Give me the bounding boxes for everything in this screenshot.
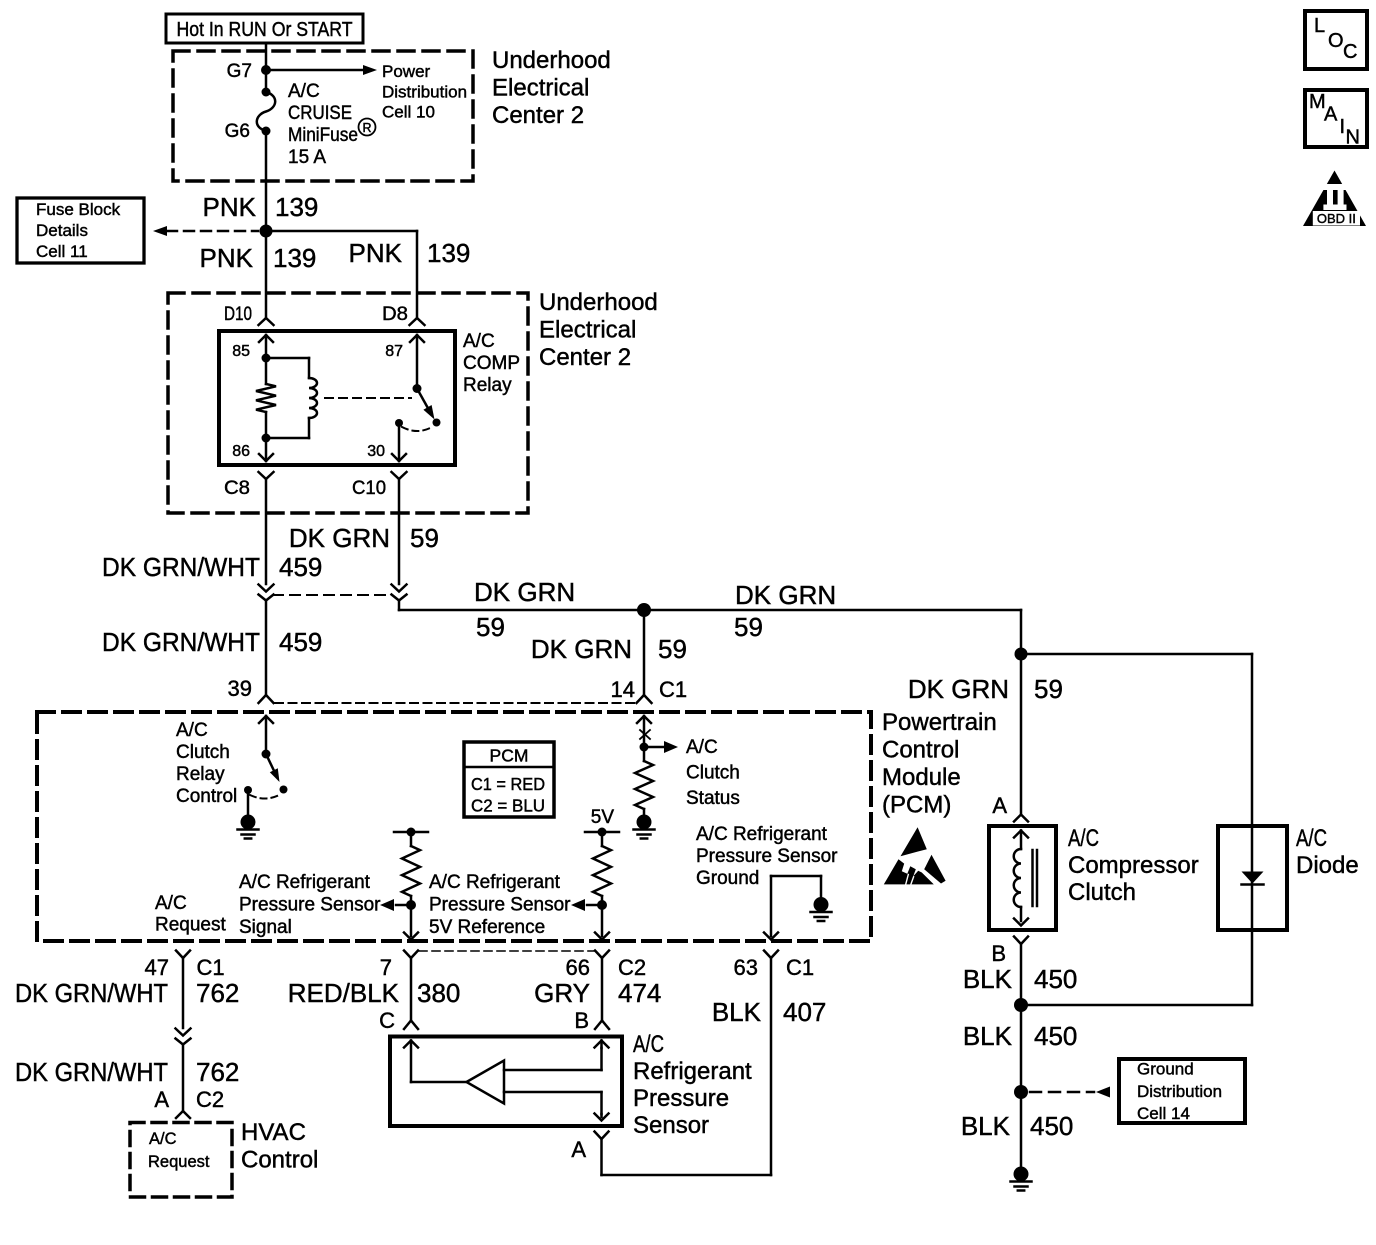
- dashed box Powertrain Control Module (PCM): [37, 712, 871, 941]
- svg-text:459: 459: [279, 627, 322, 657]
- relay pin 85 arrow: [259, 335, 273, 358]
- svg-text:Pressure: Pressure: [633, 1085, 729, 1112]
- label DK GRN 59 (vertical to pin 14): [531, 634, 687, 664]
- relay switch arm (moving contact): [417, 389, 441, 427]
- svg-text:I: I: [1340, 116, 1346, 138]
- svg-text:Clutch: Clutch: [176, 742, 230, 763]
- power feed label box: Hot In RUN Or START: [166, 14, 363, 43]
- svg-text:MiniFuse: MiniFuse: [288, 125, 358, 146]
- svg-text:Clutch: Clutch: [686, 763, 740, 784]
- label A/C Request (HVAC): [148, 1130, 210, 1171]
- svg-text:450: 450: [1034, 964, 1077, 994]
- connector chevron pin 14: [637, 695, 652, 703]
- svg-text:N: N: [1346, 127, 1360, 149]
- wire arrow to Power Distribution Cell 10: [266, 65, 377, 75]
- wire RED/BLK 380: [410, 958, 413, 1021]
- pin B label (sensor): [574, 1008, 589, 1033]
- svg-text:59: 59: [658, 634, 687, 664]
- resistor (clutch status pull-up): [635, 747, 653, 821]
- clutch internal top arrow: [1014, 831, 1028, 850]
- svg-text:Relay: Relay: [463, 375, 512, 396]
- svg-text:Pressure Sensor: Pressure Sensor: [696, 846, 838, 867]
- title: Powertrain Control Module (PCM): [882, 709, 997, 819]
- svg-text:139: 139: [275, 192, 318, 222]
- svg-text:139: 139: [427, 238, 470, 268]
- svg-text:O: O: [1328, 30, 1344, 52]
- svg-text:BLK: BLK: [961, 1111, 1011, 1141]
- splice node BLK 450 (ground dist tap): [1014, 1085, 1028, 1099]
- svg-text:Distribution: Distribution: [1137, 1082, 1222, 1101]
- pin C2 label (HVAC): [196, 1087, 224, 1112]
- svg-text:14: 14: [611, 677, 635, 702]
- node clutch status tap: [640, 743, 649, 752]
- svg-text:B: B: [991, 941, 1006, 966]
- wire DK GRN 59 corner to splice: [399, 601, 644, 611]
- wire PNK 139 to relay pin D10: [265, 231, 268, 318]
- svg-text:RED/BLK: RED/BLK: [288, 978, 400, 1008]
- label PNK 139 (right branch): [349, 238, 471, 268]
- sensor internal input B arrow: [595, 1041, 609, 1049]
- svg-text:Pressure Sensor: Pressure Sensor: [429, 895, 571, 916]
- label A/C Request: [155, 893, 226, 936]
- label BLK 450 (middle): [963, 1021, 1078, 1051]
- sensor box A/C Refrigerant Pressure Sensor: [390, 1037, 622, 1127]
- wire diode return: [1021, 930, 1252, 1005]
- wire DK GRN to diode: [1021, 654, 1252, 826]
- pin G7 label: [227, 61, 252, 82]
- connector chevron sensor pin A: [595, 1132, 609, 1140]
- ground G103 (main ground): [1011, 1167, 1032, 1191]
- relay switch fixed contact 30: [395, 419, 403, 427]
- label A/C Refrigerant Pressure Sensor Ground: [696, 824, 838, 889]
- pin C label (sensor): [379, 1008, 395, 1033]
- svg-text:A/C: A/C: [155, 893, 187, 914]
- relay coil winding: [309, 358, 317, 438]
- pin C1 label (pin 63): [786, 955, 814, 980]
- svg-text:762: 762: [196, 1057, 239, 1087]
- resistor (pressure signal): [402, 832, 420, 905]
- svg-text:PNK: PNK: [203, 192, 257, 222]
- svg-text:B: B: [574, 1008, 589, 1033]
- label 5V: [591, 807, 615, 828]
- label DK GRN/WHT 459 (upper): [102, 552, 322, 582]
- pin 47 label: [145, 955, 169, 980]
- wire PNK 139 branch to relay pin D8: [266, 231, 417, 318]
- svg-text:Status: Status: [686, 788, 740, 809]
- svg-text:DK GRN/WHT: DK GRN/WHT: [15, 978, 168, 1008]
- diode D1 element: [1242, 826, 1264, 930]
- pin 63 label: [734, 955, 758, 980]
- wire DK GRN 59 from C10: [398, 479, 401, 584]
- svg-text:762: 762: [196, 978, 239, 1008]
- splice node PNK 139: [260, 225, 273, 238]
- LOC reference box: [1305, 11, 1367, 69]
- svg-text:C1: C1: [659, 677, 687, 702]
- title: A/C Diode: [1296, 825, 1359, 879]
- wire DK GRN 59 clutch branch: [1020, 654, 1023, 815]
- svg-text:407: 407: [783, 997, 826, 1027]
- fuse value label A/C CRUISE MiniFuse(R) 15 A: [288, 81, 376, 168]
- svg-text:Powertrain: Powertrain: [882, 709, 997, 736]
- svg-text:Hot In RUN Or START: Hot In RUN Or START: [177, 19, 353, 41]
- svg-text:Request: Request: [148, 1153, 210, 1171]
- svg-text:DK GRN/WHT: DK GRN/WHT: [15, 1057, 168, 1087]
- svg-text:(PCM): (PCM): [882, 792, 951, 819]
- relay pin 30 arrow and wire: [392, 423, 406, 461]
- label PNK 139 (left branch below splice): [200, 243, 317, 273]
- wire DK GRN/WHT 459 from C8: [265, 479, 268, 584]
- title: A/C Compressor Clutch: [1068, 825, 1199, 906]
- fuse F1 A/C CRUISE MiniFuse 15A (S-curve element): [257, 88, 275, 136]
- dashed connector C2 line (pins 7-66): [419, 950, 594, 952]
- connector chevron C8: [259, 472, 274, 479]
- wire GRY 474: [601, 958, 604, 1021]
- label A/C Clutch Status: [686, 737, 740, 809]
- svg-text:Clutch: Clutch: [1068, 879, 1136, 906]
- crossed-wire x mark: [640, 730, 650, 739]
- driver switch common node: [262, 750, 271, 759]
- wire sensor pin A to BLK 407: [600, 1139, 603, 1175]
- svg-text:DK GRN: DK GRN: [735, 580, 836, 610]
- svg-text:59: 59: [476, 612, 505, 642]
- title: HVAC Control: [241, 1119, 318, 1174]
- clutch core lines: [1033, 850, 1038, 906]
- wire coil bottom link: [266, 437, 309, 440]
- svg-text:OBD II: OBD II: [1317, 211, 1356, 226]
- svg-text:A/C Refrigerant: A/C Refrigerant: [429, 872, 561, 893]
- label A/C Refrigerant Pressure Sensor Signal: [239, 872, 381, 938]
- svg-text:459: 459: [279, 552, 322, 582]
- dashed arrow to Ground Distribution: [1030, 1087, 1110, 1098]
- clutch relay control driver arrow: [259, 716, 273, 754]
- svg-text:86: 86: [232, 443, 250, 460]
- wire DK GRN/WHT 762 lower: [182, 1045, 185, 1112]
- inline connector on DK GRN/WHT wire: [259, 585, 274, 601]
- svg-text:Details: Details: [36, 221, 88, 240]
- svg-text:DK GRN: DK GRN: [908, 674, 1009, 704]
- dashed connector pairing line: [273, 594, 391, 596]
- svg-text:Diode: Diode: [1296, 852, 1359, 879]
- svg-text:139: 139: [273, 243, 316, 273]
- dashed box HVAC Control: [130, 1123, 232, 1198]
- label DK GRN 59 (below C10): [289, 523, 439, 553]
- connector chevron clutch pin B: [1014, 937, 1028, 945]
- sensor internal output A arrow: [595, 1114, 609, 1121]
- svg-text:5V: 5V: [591, 807, 615, 828]
- label DK GRN 59 (horizontal right segment): [734, 580, 836, 642]
- svg-text:87: 87: [385, 343, 403, 360]
- svg-text:G7: G7: [227, 61, 252, 82]
- connector chevron HVAC pin A: [176, 1111, 190, 1118]
- wire from Hot In RUN to fuse pin G7: [265, 43, 268, 92]
- clutch coil winding: [1014, 849, 1021, 921]
- svg-text:Center 2: Center 2: [492, 102, 584, 129]
- driver switch arm: [266, 754, 288, 794]
- svg-text:A: A: [1324, 104, 1338, 126]
- svg-text:A/C: A/C: [288, 81, 320, 102]
- pin 39 label: [228, 676, 252, 701]
- dashed connector C1 line (PCM top): [275, 702, 635, 704]
- svg-text:Relay: Relay: [176, 764, 225, 785]
- svg-text:C: C: [379, 1008, 395, 1033]
- ESD sensitivity symbol: [884, 827, 946, 884]
- wire DK GRN/WHT 762 upper: [182, 958, 185, 1028]
- svg-text:C1: C1: [197, 955, 225, 980]
- wire DK GRN 59 down to PCM pin 14: [643, 610, 646, 695]
- wire DK GRN/WHT 459 to PCM pin 39: [265, 601, 268, 696]
- sensor internal wire B input: [504, 1048, 602, 1070]
- wire pressure signal to pin 7: [404, 905, 418, 940]
- label A/C Refrigerant Pressure Sensor 5V Reference: [429, 872, 571, 938]
- svg-text:Module: Module: [882, 764, 961, 791]
- connector chevron pin 66: [595, 951, 609, 959]
- svg-text:450: 450: [1030, 1111, 1073, 1141]
- svg-text:85: 85: [232, 343, 250, 360]
- svg-text:A/C: A/C: [149, 1130, 177, 1148]
- pin 66 label: [566, 955, 590, 980]
- svg-text:BLK: BLK: [963, 964, 1013, 994]
- reference box Ground Distribution Cell 14: [1119, 1059, 1245, 1123]
- connector chevron D10: [259, 318, 274, 325]
- inline connector on DK GRN wire: [392, 585, 407, 601]
- svg-text:30: 30: [367, 443, 385, 460]
- connector chevron D8: [410, 318, 425, 325]
- label PNK 139 (above splice): [203, 192, 319, 222]
- svg-text:15 A: 15 A: [288, 147, 326, 168]
- svg-text:Sensor: Sensor: [633, 1112, 709, 1139]
- pin C1 label (PCM top): [659, 677, 687, 702]
- relay coil resistor element: [256, 358, 276, 438]
- pin 85 label: [232, 343, 250, 360]
- node relay coil bottom: [262, 434, 271, 443]
- driver switch dashed travel arc: [250, 794, 281, 799]
- splice node BLK 450 (diode junction): [1014, 998, 1028, 1012]
- PCM legend box PCM C1=RED C2=BLU: [464, 742, 554, 817]
- svg-text:PNK: PNK: [200, 243, 254, 273]
- svg-text:A: A: [154, 1087, 169, 1112]
- svg-text:Fuse Block: Fuse Block: [36, 200, 121, 219]
- svg-text:Underhood: Underhood: [539, 289, 658, 316]
- svg-text:59: 59: [734, 612, 763, 642]
- wire PNK 139 from fuse G6 to splice: [265, 131, 268, 231]
- svg-text:C1: C1: [786, 955, 814, 980]
- pin D10 label: [224, 304, 252, 325]
- wire BLK 450 (clutch B to splice): [1020, 944, 1023, 1005]
- title: Underhood Electrical Center 2 (relay): [539, 289, 658, 371]
- label DK GRN 59 (horizontal left segment): [474, 577, 575, 642]
- pressure signal input rail bar: [394, 828, 428, 837]
- label DK GRN 59 (clutch branch): [908, 674, 1063, 704]
- svg-text:5V Reference: 5V Reference: [429, 917, 545, 938]
- dashed arrow to Fuse Block Details: [153, 226, 258, 236]
- svg-text:DK GRN/WHT: DK GRN/WHT: [102, 627, 260, 657]
- svg-text:Control: Control: [176, 786, 237, 807]
- svg-text:BLK: BLK: [963, 1021, 1013, 1051]
- wire DK GRN 59 right segment: [644, 610, 1021, 654]
- pin 87 label: [385, 343, 403, 360]
- svg-text:Electrical: Electrical: [492, 75, 589, 102]
- node relay coil top: [262, 354, 271, 363]
- svg-text:C8: C8: [224, 478, 250, 499]
- svg-text:DK GRN/WHT: DK GRN/WHT: [102, 552, 260, 582]
- svg-text:C2: C2: [196, 1087, 224, 1112]
- pin 14 label: [611, 677, 635, 702]
- svg-text:BLK: BLK: [712, 997, 762, 1027]
- svg-text:Distribution: Distribution: [382, 83, 467, 102]
- arrow to A/C Refrigerant Pressure Sensor 5V Reference: [571, 899, 602, 911]
- connector chevron pin 63: [764, 951, 778, 959]
- connector chevron clutch pin A: [1014, 815, 1028, 822]
- label DK GRN/WHT 762 (lower): [15, 1057, 239, 1087]
- arrow to A/C Refrigerant Pressure Sensor Signal: [380, 899, 411, 911]
- wire BLK 450 (lower): [1020, 1092, 1023, 1174]
- svg-text:L: L: [1314, 15, 1325, 37]
- svg-text:C2: C2: [618, 955, 646, 980]
- pin C8 label: [224, 478, 250, 499]
- svg-text:A: A: [992, 793, 1007, 818]
- label A/C COMP Relay: [463, 331, 520, 396]
- svg-text:A/C: A/C: [1296, 825, 1327, 852]
- driver switch fixed contact: [244, 786, 252, 794]
- 5V supply rail bar: [585, 828, 619, 837]
- svg-text:Cell 10: Cell 10: [382, 103, 435, 122]
- pin A label (clutch): [992, 793, 1007, 818]
- svg-text:A/C: A/C: [176, 720, 208, 741]
- svg-text:66: 66: [566, 955, 590, 980]
- pin C1 label (pin 47): [197, 955, 225, 980]
- svg-text:D8: D8: [382, 304, 408, 325]
- ground (clutch relay control driver): [238, 790, 259, 839]
- svg-text:Signal: Signal: [239, 917, 292, 938]
- splice node DK GRN (clutch/diode): [1015, 648, 1028, 661]
- svg-text:G6: G6: [225, 121, 250, 142]
- svg-text:59: 59: [410, 523, 439, 553]
- relay switch common node: [413, 384, 422, 393]
- label Power Distribution Cell 10: [382, 62, 467, 122]
- sensor internal wire to amplifier: [411, 1081, 466, 1084]
- svg-text:C10: C10: [352, 478, 386, 499]
- svg-text:Control: Control: [241, 1147, 318, 1174]
- svg-text:Control: Control: [882, 737, 959, 764]
- node pressure signal tap: [406, 900, 416, 910]
- label RED/BLK 380: [288, 978, 461, 1008]
- pin A label (HVAC): [154, 1087, 169, 1112]
- svg-text:39: 39: [228, 676, 252, 701]
- wire pressure sensor ground stub: [771, 876, 821, 897]
- svg-text:Cell 11: Cell 11: [36, 242, 88, 261]
- svg-text:Compressor: Compressor: [1068, 852, 1199, 879]
- svg-text:GRY: GRY: [534, 978, 590, 1008]
- svg-text:A/C: A/C: [686, 737, 718, 758]
- relay switch dashed travel arc: [402, 427, 432, 431]
- connector chevron pin 39: [259, 695, 274, 703]
- connector chevron sensor pin C: [404, 1021, 418, 1030]
- svg-text:Underhood: Underhood: [492, 47, 611, 74]
- svg-text:450: 450: [1034, 1021, 1077, 1051]
- svg-text:A/C Refrigerant: A/C Refrigerant: [696, 824, 828, 845]
- connector chevron pin 7: [404, 951, 418, 959]
- wire BLK 450 (middle): [1020, 1005, 1023, 1092]
- op-amp U1 (amplifier triangle): [467, 1061, 505, 1104]
- label BLK 450 (lower): [961, 1111, 1074, 1141]
- pin D8 label: [382, 304, 408, 325]
- pin 7 label: [380, 955, 392, 980]
- svg-text:Refrigerant: Refrigerant: [633, 1058, 752, 1085]
- arrow to A/C Clutch Status: [644, 741, 678, 753]
- sensor internal input C arrow: [404, 1041, 418, 1083]
- clutch internal bottom arrow: [1014, 919, 1028, 926]
- svg-text:Pressure Sensor: Pressure Sensor: [239, 895, 381, 916]
- wire pressure sensor ground to pin 63: [764, 876, 778, 940]
- svg-text:63: 63: [734, 955, 758, 980]
- diode box A/C Diode: [1218, 826, 1287, 930]
- svg-text:PCM: PCM: [490, 746, 529, 766]
- dashed box Underhood Electrical Center 2 (fuse block): [173, 51, 473, 181]
- ground (pressure sensor ground reference): [811, 897, 832, 921]
- svg-text:Electrical: Electrical: [539, 317, 636, 344]
- wire BLK 407: [602, 958, 772, 1175]
- svg-text:PNK: PNK: [349, 238, 403, 268]
- svg-text:380: 380: [417, 978, 460, 1008]
- label DK GRN/WHT 459 (lower): [102, 627, 322, 657]
- svg-text:C1 = RED: C1 = RED: [471, 774, 545, 794]
- label BLK 450 (upper): [963, 964, 1078, 994]
- svg-text:Request: Request: [155, 915, 226, 936]
- svg-text:A: A: [571, 1137, 586, 1162]
- svg-text:DK GRN: DK GRN: [474, 577, 575, 607]
- dashed box Underhood Electrical Center 2 (relay): [168, 293, 528, 513]
- svg-text:A/C: A/C: [1068, 825, 1099, 852]
- ground (clutch status): [634, 815, 655, 839]
- svg-text:59: 59: [1034, 674, 1063, 704]
- svg-text:Center 2: Center 2: [539, 344, 631, 371]
- svg-text:Ground: Ground: [696, 868, 759, 889]
- pin A label (sensor): [571, 1137, 586, 1162]
- relay pin 87 arrow and wire: [410, 335, 424, 389]
- svg-text:A/C Refrigerant: A/C Refrigerant: [239, 872, 371, 893]
- pin 86 label: [232, 443, 250, 460]
- clutch status sense arrow: [637, 716, 651, 747]
- svg-text:47: 47: [145, 955, 169, 980]
- svg-text:DK GRN: DK GRN: [289, 523, 390, 553]
- svg-text:474: 474: [618, 978, 661, 1008]
- pin C10 label: [352, 478, 386, 499]
- MAIN reference box: [1305, 90, 1367, 149]
- pin C2 label (pin 66): [618, 955, 646, 980]
- title: A/C Refrigerant Pressure Sensor: [633, 1031, 752, 1139]
- svg-text:A/C: A/C: [463, 331, 495, 352]
- reference box Fuse Block Details Cell 11: [17, 198, 144, 263]
- svg-text:D10: D10: [224, 304, 252, 325]
- svg-text:Power: Power: [382, 62, 431, 81]
- svg-text:COMP: COMP: [463, 353, 520, 374]
- node G7 junction dot: [261, 65, 271, 75]
- splice node DK GRN 59: [637, 603, 651, 617]
- connector chevron pin 47: [176, 951, 190, 959]
- relay pin 86 arrow: [259, 438, 273, 461]
- svg-text:Ground: Ground: [1137, 1060, 1194, 1079]
- svg-text:7: 7: [380, 955, 392, 980]
- label A/C Clutch Relay Control: [176, 720, 237, 807]
- svg-text:DK GRN: DK GRN: [531, 634, 632, 664]
- svg-text:CRUISE: CRUISE: [288, 103, 352, 124]
- svg-text:C: C: [1343, 41, 1357, 63]
- pin 30 label: [367, 443, 385, 460]
- clutch box A/C Compressor Clutch: [989, 826, 1056, 930]
- svg-text:C2 = BLU: C2 = BLU: [471, 796, 545, 816]
- svg-text:HVAC: HVAC: [241, 1119, 306, 1146]
- wire coil top link: [266, 357, 309, 360]
